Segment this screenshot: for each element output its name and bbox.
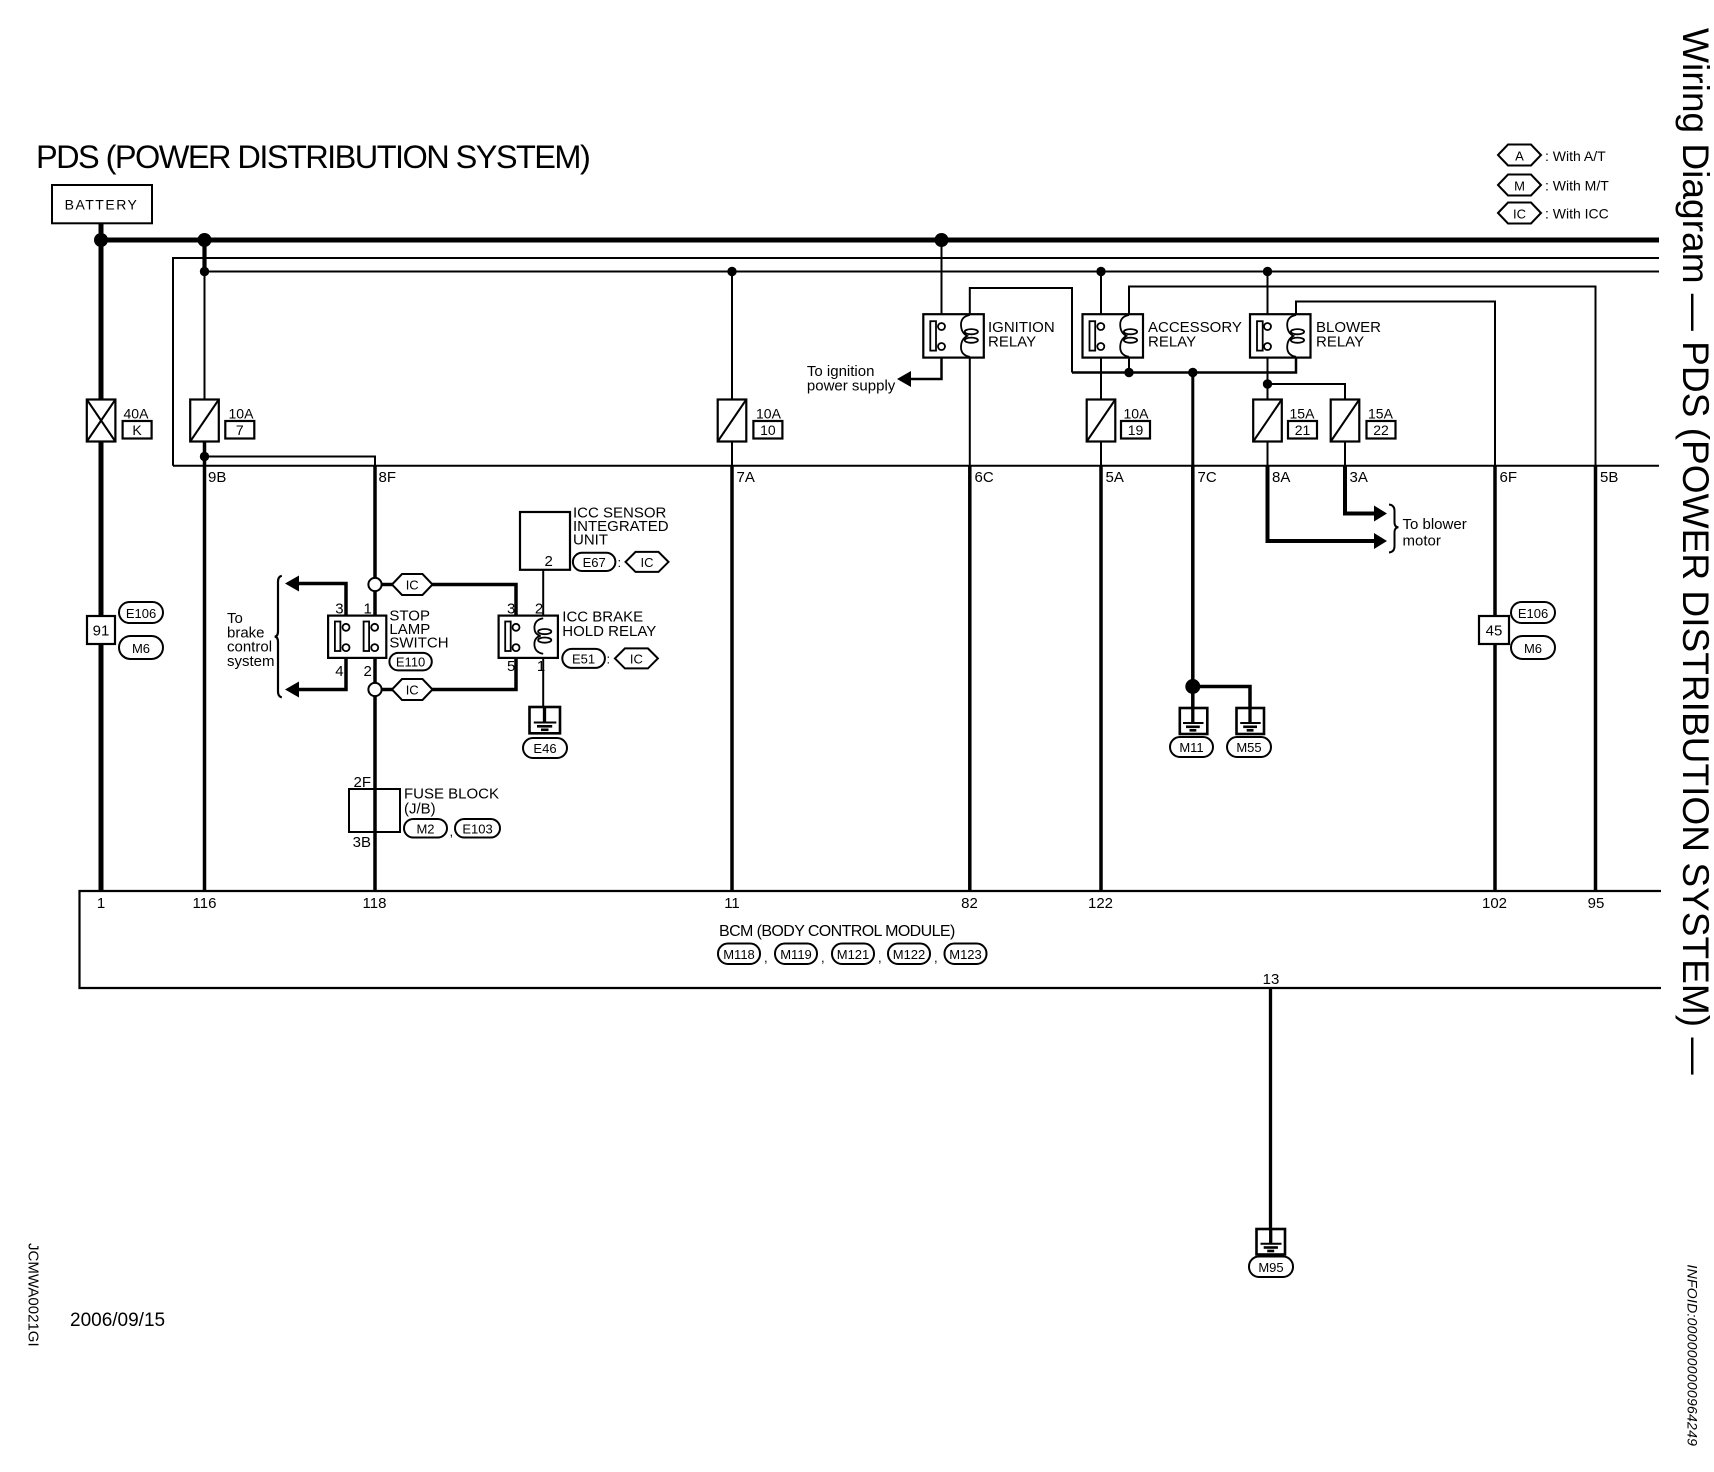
wire: ignition relay contact feed bbox=[941, 240, 943, 323]
wire: 7C ground drop bbox=[1191, 373, 1194, 466]
brace to blower motor bbox=[1389, 505, 1399, 553]
wire: BCM pin 13 drop to ground M95 bbox=[1269, 988, 1272, 1229]
ICC brake hold relay U4 bbox=[499, 601, 657, 676]
wire: blower relay contact output to fuse 21 bbox=[1267, 350, 1269, 399]
svg-text:IC: IC bbox=[641, 555, 654, 570]
svg-text:M2: M2 bbox=[416, 821, 434, 836]
svg-text:8F: 8F bbox=[379, 469, 397, 486]
svg-text:IC: IC bbox=[1513, 207, 1526, 222]
ICC sensor integrated unit bbox=[520, 505, 669, 571]
wire: battery drop to fuse K bbox=[99, 223, 104, 400]
label to brake control system bbox=[227, 610, 275, 670]
connector oval M55 bbox=[1227, 737, 1271, 757]
junction dot fuse 21/22 branch bbox=[1263, 379, 1272, 388]
svg-text:E106: E106 bbox=[1518, 606, 1548, 621]
svg-text:118: 118 bbox=[363, 895, 387, 912]
arrowhead brake control lower bbox=[285, 682, 299, 698]
svg-text:95: 95 bbox=[1588, 895, 1605, 912]
svg-text:3A: 3A bbox=[1350, 469, 1368, 486]
svg-text:M6: M6 bbox=[132, 641, 150, 656]
relay U3 blower relay bbox=[1250, 314, 1381, 357]
svg-text:8A: 8A bbox=[1272, 469, 1290, 486]
svg-text:19: 19 bbox=[1128, 422, 1144, 438]
arrowhead 3A to blower motor bbox=[1374, 506, 1387, 522]
wire: fuse 7 feed from bus bbox=[202, 240, 206, 272]
legend hexagon A bbox=[1498, 145, 1541, 166]
wire: distribution rail bbox=[173, 465, 1659, 467]
junction dot ground branch bbox=[1185, 679, 1200, 694]
fuse 7 10A bbox=[190, 400, 254, 442]
fusible link K 40A bbox=[87, 400, 152, 442]
svg-text:M: M bbox=[1514, 179, 1525, 194]
wire: ICC sensor unit pin 2 to brake hold relay coil bbox=[542, 570, 544, 621]
svg-text:91: 91 bbox=[93, 623, 110, 640]
junction dot rail2 at fuse 10 bbox=[727, 267, 736, 276]
wire: jog from fuse 7 output to 8F drop bbox=[205, 457, 376, 466]
svg-text:122: 122 bbox=[1088, 895, 1113, 912]
connector oval M119 bbox=[775, 944, 825, 966]
svg-text:22: 22 bbox=[1373, 422, 1389, 438]
svg-text:IC: IC bbox=[630, 651, 643, 666]
svg-text:40A: 40A bbox=[124, 406, 150, 422]
svg-text:HOLD RELAY: HOLD RELAY bbox=[562, 623, 656, 640]
wire: blower relay contact feed bbox=[1267, 272, 1269, 324]
connector oval M6 left bbox=[119, 636, 163, 659]
svg-text:10: 10 bbox=[760, 422, 776, 438]
svg-text:BCM (BODY CONTROL MODULE): BCM (BODY CONTROL MODULE) bbox=[719, 923, 955, 940]
svg-text:3B: 3B bbox=[353, 834, 371, 851]
connector oval M122 bbox=[888, 944, 938, 966]
svg-text:,: , bbox=[764, 950, 768, 965]
connector oval E46 bbox=[523, 738, 567, 758]
svg-text:10A: 10A bbox=[756, 406, 782, 422]
connector box 45 on 6F line bbox=[1479, 616, 1509, 644]
svg-text:9B: 9B bbox=[208, 469, 226, 486]
wire: battery main bus bbox=[99, 238, 1659, 243]
connector oval M123 bbox=[945, 944, 987, 965]
svg-text:A: A bbox=[1515, 149, 1524, 164]
svg-text:M55: M55 bbox=[1236, 740, 1261, 755]
arrowhead 8A to blower motor bbox=[1374, 533, 1387, 549]
wire: stop lamp switch pin 2 to lower node bbox=[373, 651, 377, 683]
svg-text:E110: E110 bbox=[396, 655, 425, 670]
connector oval E110 bbox=[389, 653, 431, 671]
svg-text:11: 11 bbox=[724, 895, 740, 912]
svg-text:1: 1 bbox=[537, 658, 545, 675]
connector oval E106 left bbox=[119, 602, 163, 623]
wire: stop lamp pin 3 to brake control arrow upper bbox=[298, 584, 346, 625]
connector oval E103 bbox=[455, 819, 500, 838]
svg-text:102: 102 bbox=[1482, 895, 1507, 912]
connector oval E51 bbox=[562, 649, 610, 668]
wire: upper node to IC hexagon bbox=[382, 583, 393, 587]
wire: coil return line bbox=[1072, 354, 1296, 373]
fuse 19 10A bbox=[1087, 400, 1150, 442]
junction dot fuse 7 output bbox=[200, 452, 209, 461]
ground M11 bbox=[1180, 708, 1208, 734]
junction dot return line at 7C drop bbox=[1188, 368, 1197, 377]
relay U1 ignition relay bbox=[923, 314, 1054, 357]
legend hexagon M bbox=[1498, 175, 1541, 196]
wire: blower coil top to 6F drop bbox=[1296, 302, 1495, 466]
svg-text:motor: motor bbox=[1403, 533, 1441, 550]
wire: rail 2 (fuse 7 sub-bus) bbox=[205, 271, 1660, 273]
svg-text:M122: M122 bbox=[893, 947, 926, 962]
label to blower motor bbox=[1403, 516, 1467, 550]
connector oval M2 bbox=[404, 819, 453, 839]
wire: accessory coil top to 5B drop bbox=[1129, 287, 1596, 466]
connector oval M6 right bbox=[1511, 636, 1555, 659]
svg-text:E106: E106 bbox=[126, 606, 156, 621]
PAGE TITLE bbox=[36, 139, 589, 175]
wire: rail2 to fuse 10 bbox=[731, 272, 733, 400]
wire: lower node to IC hexagon bbox=[382, 688, 393, 692]
wire: fuse 21 output 8A to blower motor arrow bbox=[1267, 442, 1269, 466]
svg-text:7A: 7A bbox=[737, 469, 755, 486]
wire: stop lamp pin 4 to brake control arrow lower bbox=[298, 651, 346, 690]
svg-text:2F: 2F bbox=[353, 774, 371, 791]
wire: lower IC line to ICC brake hold relay pin 5 bbox=[432, 651, 516, 690]
svg-text::: : bbox=[618, 555, 622, 570]
fuse 21 15A bbox=[1253, 400, 1317, 442]
svg-text:: With A/T: : With A/T bbox=[1545, 148, 1606, 164]
ground E46 bbox=[530, 706, 561, 733]
svg-text:BATTERY: BATTERY bbox=[65, 197, 139, 213]
svg-text:10A: 10A bbox=[1124, 406, 1150, 422]
legend hexagon IC bbox=[1498, 203, 1541, 224]
brace to brake control system bbox=[275, 576, 282, 698]
svg-text:13: 13 bbox=[1263, 971, 1280, 988]
svg-text:2: 2 bbox=[545, 553, 553, 570]
junction dot return line at accessory coil bbox=[1124, 368, 1133, 377]
wire: accessory relay contact feed bbox=[1100, 272, 1102, 324]
svg-text:6F: 6F bbox=[1500, 469, 1518, 486]
IC hexagon at E51 bbox=[615, 648, 658, 668]
svg-text:1: 1 bbox=[97, 895, 105, 912]
svg-text:K: K bbox=[132, 422, 142, 438]
svg-text:2: 2 bbox=[364, 663, 372, 680]
wire: ground branch to M55 bbox=[1193, 687, 1250, 709]
connector oval M11 bbox=[1170, 737, 1213, 757]
wire: 8F drop to stop lamp switch node bbox=[373, 466, 377, 578]
svg-text:RELAY: RELAY bbox=[988, 334, 1036, 351]
svg-text:7: 7 bbox=[236, 422, 244, 438]
svg-text:system: system bbox=[227, 653, 275, 670]
svg-text::: : bbox=[607, 651, 611, 666]
svg-text:,: , bbox=[878, 950, 882, 965]
connector oval M95 bbox=[1249, 1257, 1293, 1278]
junction dot bus at battery bbox=[94, 233, 108, 247]
svg-text:: With M/T: : With M/T bbox=[1545, 178, 1609, 194]
junction dot rail2 at accessory relay bbox=[1096, 267, 1105, 276]
svg-text:15A: 15A bbox=[1368, 406, 1394, 422]
svg-text:M119: M119 bbox=[780, 947, 812, 962]
BCM body control module box bbox=[80, 891, 1662, 988]
wire: fuse 22 output 3A to blower motor arrow bbox=[1344, 442, 1346, 466]
svg-text:UNIT: UNIT bbox=[573, 532, 608, 549]
svg-text:M121: M121 bbox=[837, 947, 870, 962]
svg-text:PDS (POWER DISTRIBUTION SYSTEM: PDS (POWER DISTRIBUTION SYSTEM) bbox=[36, 139, 589, 175]
svg-text:: With ICC: : With ICC bbox=[1545, 206, 1609, 222]
arrowhead to ignition power supply bbox=[897, 371, 911, 387]
option node circle lower bbox=[368, 683, 381, 696]
vertical INFOID code bbox=[1685, 1265, 1701, 1447]
svg-text:6C: 6C bbox=[975, 469, 994, 486]
svg-text:116: 116 bbox=[193, 895, 217, 912]
svg-text:M11: M11 bbox=[1179, 740, 1203, 755]
svg-text:4: 4 bbox=[335, 663, 343, 680]
date stamp bbox=[70, 1310, 165, 1331]
IC option hexagon lower bbox=[392, 679, 433, 700]
relay U2 accessory relay bbox=[1083, 314, 1242, 357]
connector oval E67 bbox=[573, 553, 621, 571]
wire: 6F drop to connector 45 and BCM pin 102 bbox=[1493, 466, 1497, 890]
svg-text:15A: 15A bbox=[1290, 406, 1316, 422]
svg-text:RELAY: RELAY bbox=[1148, 334, 1196, 351]
wire: ignition relay contact output to ignition power supply arrow bbox=[909, 350, 942, 379]
wire: branch to fuse 22 bbox=[1268, 384, 1346, 400]
junction dot bus at fuse 7 feed bbox=[198, 233, 212, 247]
wire: fuse 10 output 7A drop to BCM pin 11 bbox=[731, 442, 733, 466]
svg-text:E51: E51 bbox=[572, 651, 595, 666]
fuse 10 10A bbox=[718, 400, 783, 442]
svg-text:To blower: To blower bbox=[1403, 516, 1467, 533]
junction dot bus at ignition relay feed bbox=[935, 233, 949, 247]
svg-text:45: 45 bbox=[1486, 623, 1503, 640]
svg-text:M95: M95 bbox=[1258, 1260, 1283, 1275]
IC option hexagon upper bbox=[392, 574, 433, 595]
svg-text:IC: IC bbox=[406, 683, 419, 698]
svg-text:82: 82 bbox=[961, 895, 978, 912]
svg-text:E67: E67 bbox=[583, 555, 606, 570]
svg-text:IC: IC bbox=[406, 578, 419, 593]
wire: ignition coil bottom 6C drop to BCM pin 82 bbox=[969, 356, 971, 466]
svg-text:5B: 5B bbox=[1600, 469, 1618, 486]
svg-text:,: , bbox=[450, 824, 454, 839]
junction dot rail2 at blower relay bbox=[1263, 267, 1272, 276]
stop lamp switch S1 bbox=[328, 601, 448, 681]
svg-text:1: 1 bbox=[364, 601, 372, 618]
svg-text:21: 21 bbox=[1295, 422, 1311, 438]
wire: 118 drop through fuse block to BCM pin 118 bbox=[373, 696, 377, 890]
wire: upper IC line to ICC brake hold relay pin 3 bbox=[432, 585, 516, 625]
svg-text:,: , bbox=[934, 950, 938, 965]
arrowhead brake control upper bbox=[285, 576, 299, 592]
svg-text:M123: M123 bbox=[949, 947, 982, 962]
svg-text:3: 3 bbox=[335, 601, 343, 618]
svg-text:7C: 7C bbox=[1198, 469, 1217, 486]
wire: fuse 7 output and 9B drop to BCM pin 116 bbox=[203, 442, 207, 891]
wire: accessory relay contact output to fuse 19 bbox=[1100, 350, 1102, 399]
svg-text:,: , bbox=[821, 950, 825, 965]
wire: ignition coil top to return drop bbox=[970, 288, 1072, 373]
wire: fuse 19 output 5A drop to BCM pin 122 bbox=[1100, 442, 1102, 466]
connector oval E106 right bbox=[1511, 602, 1555, 623]
wire: 5B drop to BCM pin 95 bbox=[1594, 466, 1598, 890]
option node circle upper bbox=[368, 578, 381, 591]
battery bbox=[52, 185, 152, 223]
svg-text:power supply: power supply bbox=[807, 378, 896, 395]
svg-text:E103: E103 bbox=[462, 821, 492, 836]
svg-text:INFOID:0000000000964249: INFOID:0000000000964249 bbox=[1685, 1265, 1701, 1447]
svg-text:5: 5 bbox=[507, 658, 515, 675]
svg-text:5A: 5A bbox=[1106, 469, 1124, 486]
svg-text:(J/B): (J/B) bbox=[404, 801, 436, 818]
junction dot rail2 start bbox=[200, 267, 209, 276]
vertical right margin title bbox=[1675, 28, 1714, 1075]
ground M55 bbox=[1237, 708, 1265, 734]
IC hexagon at E67 bbox=[626, 552, 669, 572]
connector oval M121 bbox=[832, 944, 882, 966]
fuse 22 15A bbox=[1331, 400, 1396, 442]
svg-text:RELAY: RELAY bbox=[1316, 334, 1364, 351]
svg-text:E46: E46 bbox=[533, 741, 556, 756]
svg-text:2: 2 bbox=[535, 601, 543, 618]
wire: battery drop fuse K to BCM pin 1 bbox=[99, 442, 104, 891]
svg-text:Wiring Diagram — PDS (POWER DI: Wiring Diagram — PDS (POWER DISTRIBUTION… bbox=[1675, 28, 1714, 1075]
ground M95 bbox=[1257, 1229, 1286, 1255]
connector oval M118 bbox=[718, 944, 768, 966]
wire: accessory coil bottom to return line bbox=[1128, 356, 1130, 373]
vertical figure code JCMWA0021GI bbox=[25, 1243, 42, 1347]
svg-text:M118: M118 bbox=[723, 947, 755, 962]
label to ignition power supply bbox=[807, 363, 896, 395]
wire: brake hold relay coil to ground E46 bbox=[542, 651, 544, 706]
wire: node to stop lamp switch pin 1 bbox=[373, 591, 377, 624]
svg-text:M6: M6 bbox=[1524, 641, 1542, 656]
svg-text:3: 3 bbox=[507, 601, 515, 618]
svg-text:JCMWA0021GI: JCMWA0021GI bbox=[25, 1243, 42, 1347]
svg-text:2006/09/15: 2006/09/15 bbox=[70, 1310, 165, 1331]
svg-text:10A: 10A bbox=[229, 406, 255, 422]
svg-text:SWITCH: SWITCH bbox=[389, 635, 448, 652]
fuse block J/B bbox=[349, 774, 499, 851]
connector box 91 on battery line bbox=[87, 616, 115, 644]
wire: rail 1 (sub-bus) with left frame edge bbox=[173, 258, 1659, 466]
